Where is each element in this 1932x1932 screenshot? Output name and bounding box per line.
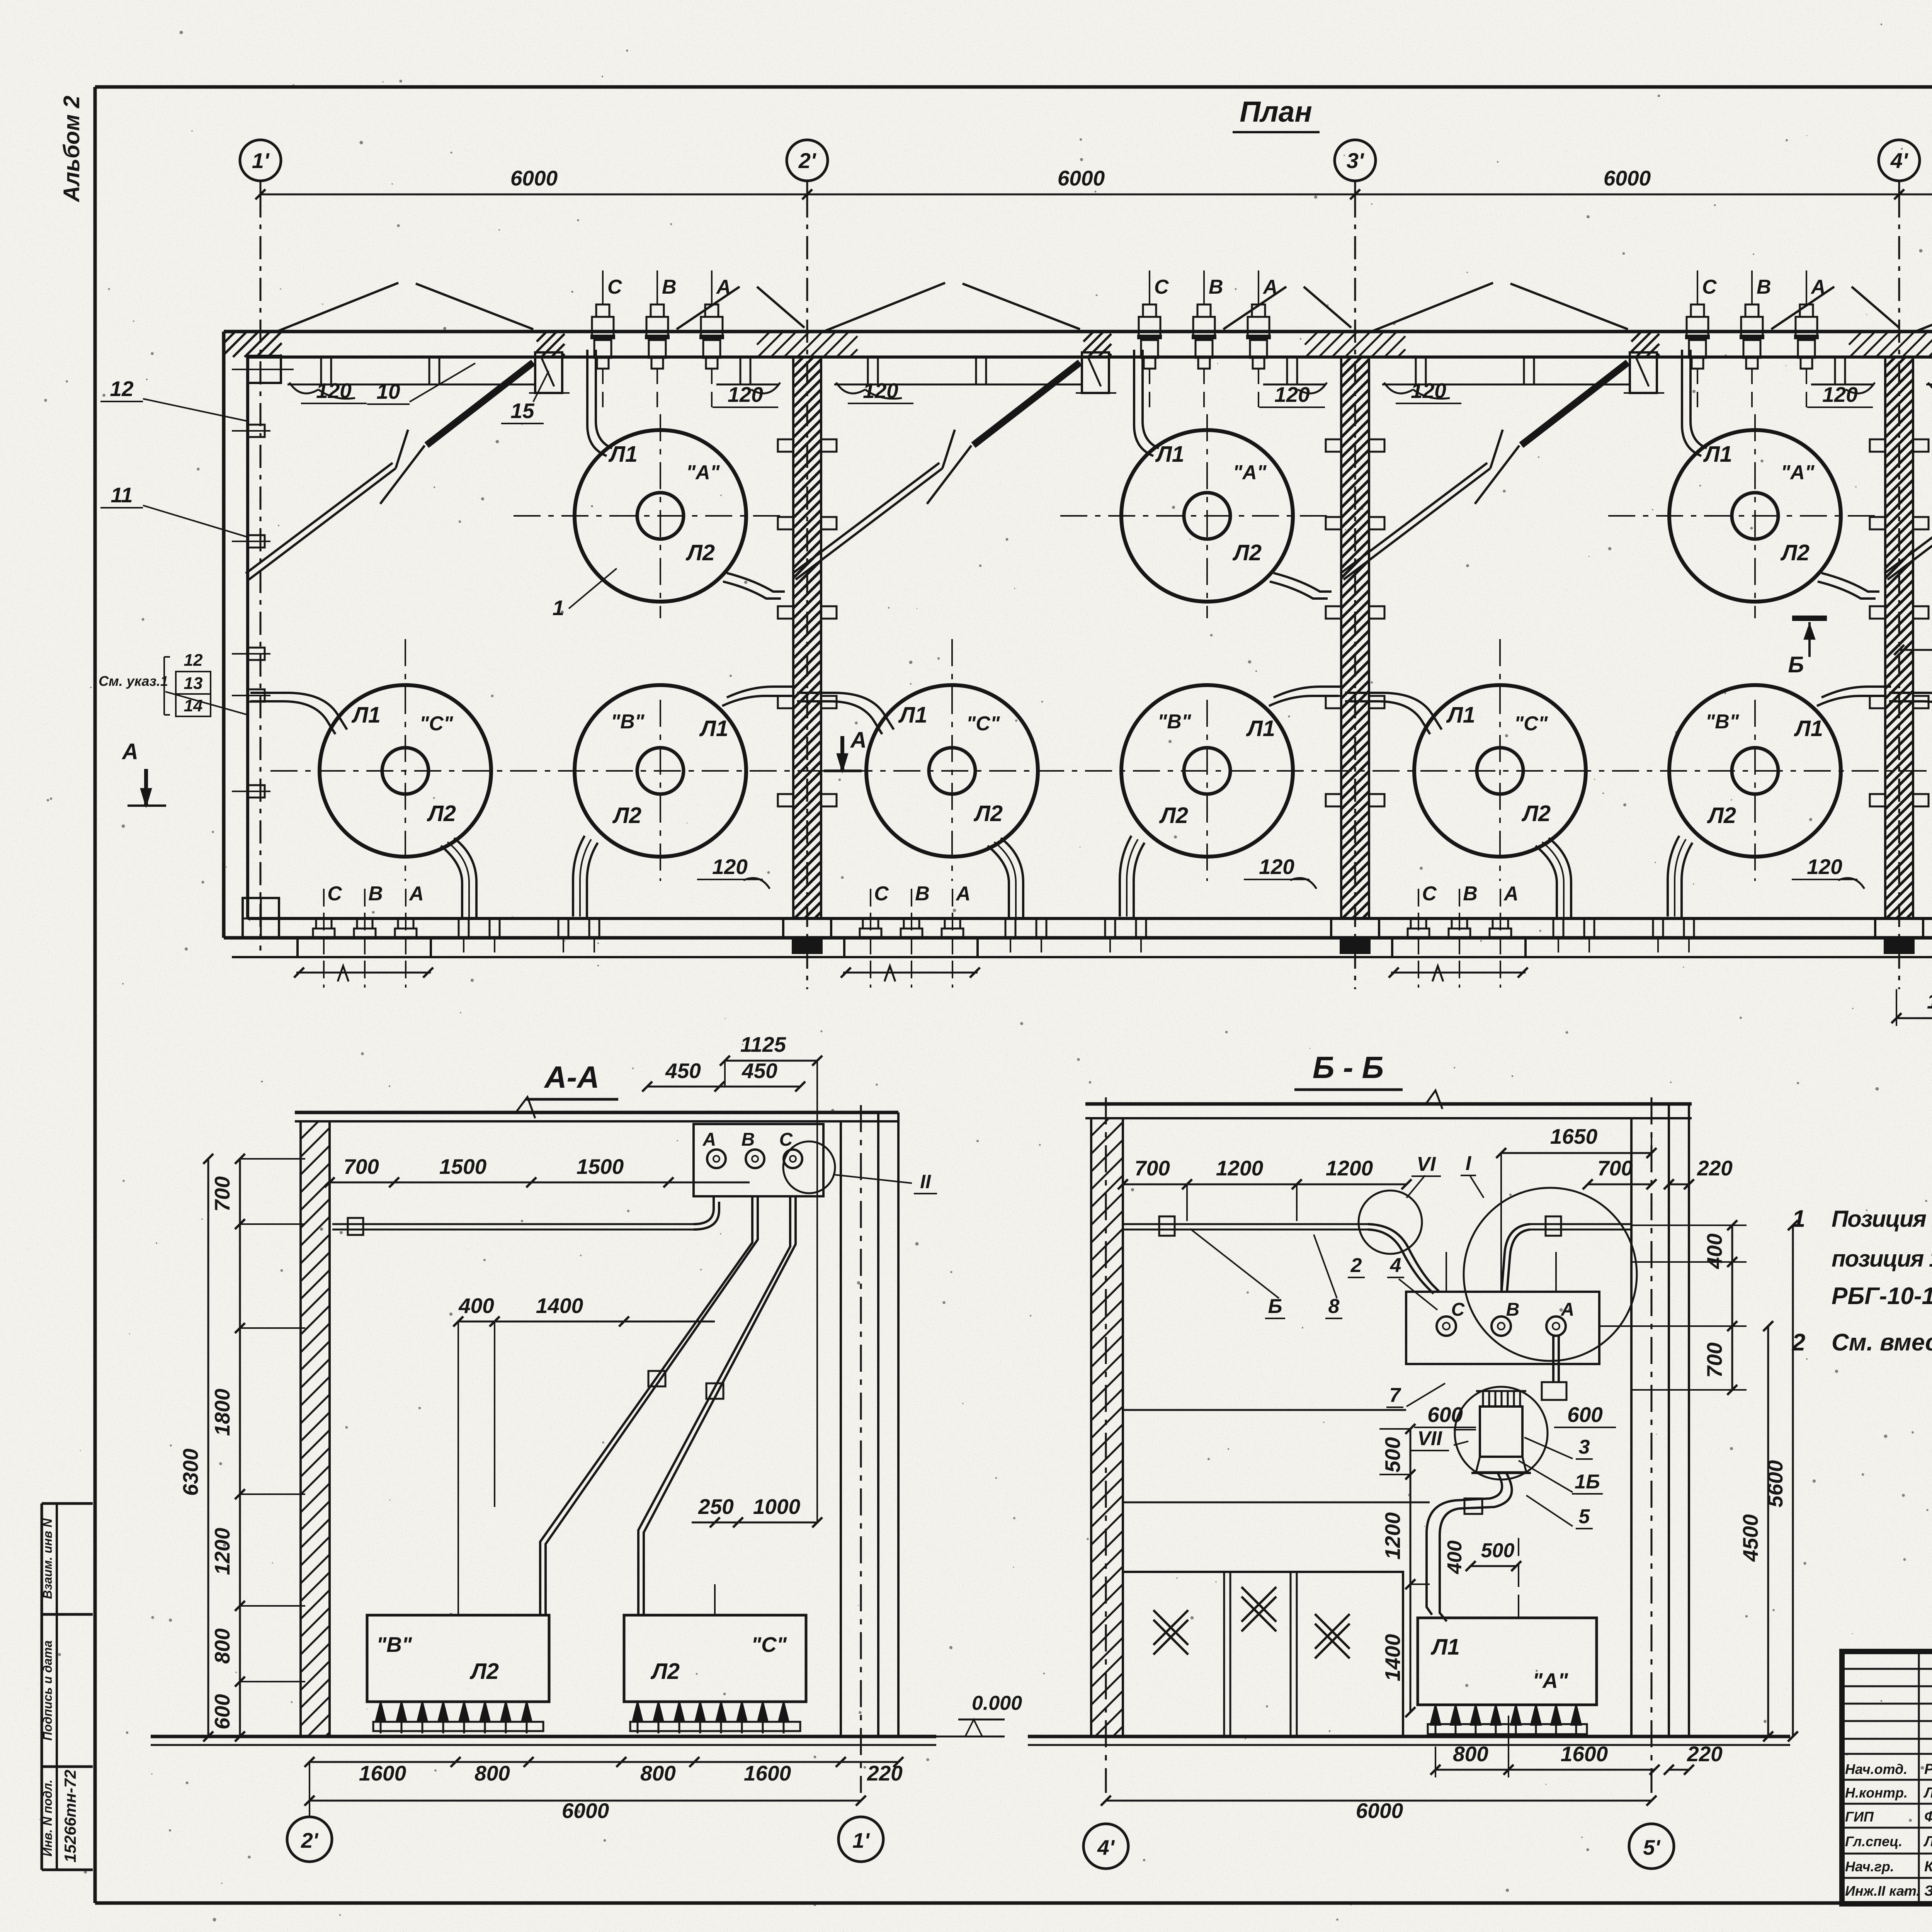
svg-text:"А": "А" bbox=[1781, 461, 1815, 484]
svg-text:4: 4 bbox=[1390, 1254, 1401, 1277]
svg-text:Л1: Л1 bbox=[898, 702, 927, 728]
left wall rib bbox=[248, 648, 265, 660]
svg-text:Л1: Л1 bbox=[1703, 442, 1732, 467]
section mark Б middle bbox=[1792, 616, 1827, 621]
svg-text:700: 700 bbox=[210, 1176, 234, 1212]
svg-text:700: 700 bbox=[344, 1155, 379, 1179]
svg-text:Л2: Л2 bbox=[650, 1659, 680, 1684]
svg-text:C: C bbox=[1702, 276, 1717, 298]
bay3 bottom pad bbox=[1392, 938, 1526, 957]
A-A dim 6000 bottom bbox=[310, 1800, 861, 1802]
svg-text:С: С bbox=[779, 1129, 793, 1150]
svg-text:4': 4' bbox=[1890, 148, 1908, 173]
left wall rib bbox=[248, 535, 265, 548]
bay2 label 120 bottom bbox=[1290, 878, 1316, 889]
svg-text:Л2: Л2 bbox=[469, 1659, 499, 1684]
column rib bbox=[1870, 439, 1885, 452]
bay1 bottom supports bbox=[459, 918, 469, 938]
svg-text:"С": "С" bbox=[1514, 713, 1548, 735]
svg-text:C: C bbox=[327, 883, 342, 905]
svg-text:1800: 1800 bbox=[210, 1388, 234, 1436]
column cap hatch bbox=[1849, 332, 1932, 357]
A-A inner dims 700 1500 1500 bbox=[330, 1182, 750, 1184]
Б-Б dim 1650 top bbox=[1501, 1152, 1651, 1154]
Б-Б transformer assembly bbox=[1480, 1406, 1522, 1457]
svg-text:8: 8 bbox=[1328, 1295, 1340, 1318]
svg-text:Б - Б: Б - Б bbox=[1313, 1050, 1384, 1085]
svg-text:"С": "С" bbox=[966, 713, 1000, 735]
svg-text:1125: 1125 bbox=[1927, 989, 1932, 1013]
A-A insulators С bbox=[633, 1702, 643, 1722]
svg-text:1200: 1200 bbox=[210, 1527, 234, 1575]
column shaft bbox=[1341, 357, 1369, 918]
svg-text:Карпов: Карпов bbox=[1924, 1859, 1932, 1875]
svg-text:В: В bbox=[742, 1129, 755, 1150]
Б-Б reactor box Л1 bbox=[1418, 1618, 1597, 1705]
svg-text:1Б: 1Б bbox=[1575, 1471, 1600, 1493]
bay2 band rib bbox=[1287, 357, 1297, 384]
bay1 short diagonal bbox=[380, 446, 425, 504]
svg-text:"А": "А" bbox=[1532, 1668, 1568, 1692]
svg-text:2: 2 bbox=[1792, 1329, 1805, 1356]
svg-text:2': 2' bbox=[301, 1828, 319, 1852]
bay3 cable B down bbox=[1668, 836, 1679, 917]
svg-text:400: 400 bbox=[458, 1294, 494, 1318]
svg-text:"В": "В" bbox=[1158, 711, 1192, 733]
bay2 in-band hatch bbox=[1083, 332, 1111, 357]
bay3 canopy right tent bbox=[1771, 287, 1834, 329]
svg-text:12: 12 bbox=[110, 377, 134, 401]
plan foundation strip bbox=[232, 956, 1932, 958]
column rib bbox=[778, 606, 793, 619]
svg-text:A: A bbox=[1810, 276, 1826, 298]
svg-text:A: A bbox=[408, 883, 424, 905]
Б-Б cabinet X mark bbox=[1315, 1614, 1350, 1649]
left wall rib bbox=[248, 785, 265, 798]
svg-text:120: 120 bbox=[863, 379, 898, 403]
svg-text:Лурье: Лурье bbox=[1923, 1833, 1932, 1850]
svg-text:10: 10 bbox=[376, 379, 400, 403]
bay3 reactor 'C' circle bbox=[1414, 685, 1586, 857]
column rib bbox=[1870, 517, 1885, 529]
svg-text:Л1: Л1 bbox=[608, 442, 638, 467]
svg-text:5: 5 bbox=[1579, 1505, 1590, 1528]
svg-text:1': 1' bbox=[852, 1828, 870, 1852]
svg-text:600: 600 bbox=[1427, 1403, 1463, 1427]
svg-text:"В": "В" bbox=[1706, 711, 1740, 733]
column rib bbox=[1870, 794, 1885, 806]
bay1 bushing bracket bbox=[535, 352, 562, 393]
bay3 cable A from bushings bbox=[1682, 350, 1701, 456]
svg-text:II: II bbox=[920, 1171, 931, 1192]
bay3 label 120 left bbox=[1384, 383, 1413, 393]
A-A total dim 6300 bbox=[207, 1159, 209, 1736]
bay2 label 120 right bbox=[1298, 383, 1327, 393]
bay2 cable C down bbox=[1001, 838, 1023, 918]
column cap hatch bbox=[757, 332, 857, 357]
svg-text:1600: 1600 bbox=[1561, 1742, 1608, 1766]
bay3 barrier diagonal bbox=[1344, 468, 1490, 580]
svg-text:500: 500 bbox=[1381, 1437, 1405, 1473]
bay2 canopy right tent bbox=[1223, 287, 1286, 329]
dim 1125 bay4 bottom bbox=[1896, 1017, 1932, 1019]
dim 1600 2800 inside bay4 bbox=[1899, 649, 1932, 651]
svg-text:450: 450 bbox=[665, 1059, 701, 1083]
svg-text:"А": "А" bbox=[686, 461, 720, 484]
column rib bbox=[778, 696, 793, 708]
svg-text:4': 4' bbox=[1097, 1835, 1115, 1859]
svg-text:250: 250 bbox=[698, 1495, 734, 1519]
svg-text:Л2: Л2 bbox=[1707, 803, 1736, 828]
bay1 top bushing B bbox=[656, 270, 658, 305]
svg-text:600: 600 bbox=[210, 1694, 234, 1730]
svg-text:A: A bbox=[1503, 883, 1519, 905]
svg-text:1200: 1200 bbox=[1216, 1156, 1264, 1180]
svg-text:А: А bbox=[702, 1129, 716, 1150]
A-A dim 450 450 bbox=[647, 1086, 800, 1088]
svg-text:Л2: Л2 bbox=[612, 803, 641, 828]
A-A insulators В bbox=[376, 1702, 386, 1722]
svg-text:12: 12 bbox=[184, 651, 203, 670]
svg-text:500: 500 bbox=[1481, 1539, 1515, 1562]
A-A callout II bbox=[783, 1141, 835, 1193]
svg-text:С: С bbox=[1451, 1299, 1465, 1320]
bay3 cable B to column bbox=[1821, 687, 1891, 697]
bay3 canopy left tent bbox=[1371, 283, 1493, 332]
svg-text:В: В bbox=[1506, 1299, 1520, 1320]
bay1 reactor 'A' circle bbox=[575, 430, 746, 602]
Б-Б right dim 5600 bbox=[1792, 1225, 1794, 1736]
sheet frame bbox=[95, 85, 1932, 89]
svg-text:2: 2 bbox=[1350, 1254, 1362, 1277]
svg-text:1400: 1400 bbox=[536, 1294, 583, 1318]
left wall corner hatch bbox=[224, 332, 282, 357]
A-A right wall bbox=[840, 1121, 842, 1736]
svg-text:1500: 1500 bbox=[577, 1155, 624, 1179]
column rib bbox=[1326, 517, 1341, 529]
bay1 bottom pad bbox=[298, 938, 431, 957]
svg-text:Л1: Л1 bbox=[1446, 702, 1475, 728]
bay2 bottom pad bbox=[844, 938, 978, 957]
svg-text:120: 120 bbox=[1822, 383, 1858, 406]
svg-text:План: План bbox=[1240, 95, 1312, 128]
bay2 blade diagonal bbox=[973, 362, 1080, 445]
svg-text:6000: 6000 bbox=[562, 1799, 609, 1823]
svg-text:13: 13 bbox=[184, 674, 203, 693]
bay2 cable B down bbox=[1120, 836, 1131, 917]
plan left wall bbox=[222, 332, 226, 938]
svg-text:Нач.отд.: Нач.отд. bbox=[1845, 1761, 1907, 1777]
Б-Б right dim 4500 bbox=[1767, 1326, 1769, 1736]
svg-text:"В": "В" bbox=[376, 1633, 412, 1656]
svg-text:400: 400 bbox=[1444, 1541, 1466, 1575]
bay4 shelf line bbox=[1926, 384, 1932, 386]
bay1 label 120 bottom bbox=[743, 878, 770, 889]
svg-text:Ломоносова: Ломоносова bbox=[1923, 1785, 1932, 1801]
A-A phase C drop bbox=[638, 1196, 790, 1615]
column rib bbox=[1870, 696, 1885, 708]
column shaft bbox=[793, 357, 821, 918]
svg-text:600: 600 bbox=[1567, 1403, 1603, 1427]
svg-text:800: 800 bbox=[474, 1761, 510, 1785]
left stamp table bbox=[42, 1502, 93, 1505]
column footing bbox=[1331, 918, 1379, 938]
column rib bbox=[1326, 439, 1341, 452]
Б-Б busbar right bbox=[1530, 1223, 1631, 1225]
svg-text:6000: 6000 bbox=[1356, 1799, 1403, 1823]
svg-text:15266тн-72: 15266тн-72 bbox=[61, 1770, 79, 1862]
grid axis 1' bubble bbox=[240, 140, 281, 181]
svg-text:C: C bbox=[607, 276, 622, 298]
bay2 barrier diagonal bbox=[796, 468, 942, 580]
bay2 band rib bbox=[868, 357, 878, 384]
bay1 cable C down bbox=[454, 838, 476, 918]
svg-text:Альбом 2: Альбом 2 bbox=[59, 95, 84, 202]
A-A busbar bbox=[332, 1223, 694, 1225]
svg-text:Б: Б bbox=[1788, 652, 1804, 677]
svg-text:11: 11 bbox=[111, 483, 133, 507]
column rib bbox=[1326, 794, 1341, 806]
bay2 cable A to column bbox=[1274, 573, 1332, 592]
bay3 reactor 'A' circle bbox=[1669, 430, 1841, 602]
svg-text:120: 120 bbox=[1807, 855, 1842, 879]
svg-text:4500: 4500 bbox=[1738, 1514, 1762, 1562]
bay1 band rib bbox=[740, 357, 750, 384]
svg-text:7: 7 bbox=[1389, 1384, 1401, 1406]
bay3 top bushing C bbox=[1697, 270, 1698, 305]
svg-text:1400: 1400 bbox=[1381, 1634, 1405, 1681]
bay4 barrier diagonal bbox=[1888, 468, 1932, 580]
column rib bbox=[778, 517, 793, 529]
column rib bbox=[778, 794, 793, 806]
column rib bbox=[1326, 606, 1341, 619]
svg-text:220: 220 bbox=[1687, 1742, 1723, 1766]
svg-text:VI: VI bbox=[1417, 1153, 1436, 1175]
svg-text:B: B bbox=[915, 883, 930, 905]
bay3 cable A to column bbox=[1821, 573, 1879, 592]
bay3 band rib bbox=[1835, 357, 1845, 384]
svg-text:700: 700 bbox=[1134, 1156, 1170, 1180]
svg-text:Подпись и дата: Подпись и дата bbox=[41, 1640, 54, 1740]
svg-text:А: А bbox=[850, 728, 867, 753]
grid axis 4' bubble bbox=[1879, 140, 1920, 181]
bay1 canopy left tent bbox=[277, 283, 398, 332]
left wall rib bbox=[248, 689, 265, 702]
grid axis 2' bubble bbox=[787, 140, 828, 181]
bay1 cable B down bbox=[573, 836, 585, 917]
Б-Б callout VII bbox=[1455, 1387, 1548, 1480]
bay3 band rib bbox=[1524, 357, 1534, 384]
svg-text:5': 5' bbox=[1643, 1835, 1661, 1859]
A-A top slab bbox=[295, 1111, 898, 1114]
Б-Б left dim chain 500 1200 1400 bbox=[1410, 1429, 1412, 1712]
A-A coupler on B drop bbox=[648, 1371, 665, 1386]
A-A grid 1' centerline bbox=[860, 1105, 862, 1793]
Б-Б shelf lines bbox=[1123, 1409, 1406, 1411]
bay3 top bushing B bbox=[1751, 270, 1753, 305]
bay4 canopy left tent bbox=[1915, 283, 1932, 332]
svg-text:120: 120 bbox=[1411, 379, 1446, 403]
Б-Б cabinet X mark bbox=[1242, 1587, 1276, 1622]
left wall rib bbox=[248, 425, 265, 437]
svg-text:Л2: Л2 bbox=[973, 801, 1003, 826]
svg-text:6000: 6000 bbox=[510, 166, 558, 190]
bay1 label 120 right bbox=[751, 383, 780, 393]
Б-Б busbar bbox=[1123, 1223, 1368, 1225]
svg-text:Зайцева: Зайцева bbox=[1924, 1883, 1932, 1899]
column footing bbox=[1875, 918, 1923, 938]
svg-text:Л1: Л1 bbox=[1155, 442, 1184, 467]
svg-text:1: 1 bbox=[553, 596, 565, 620]
svg-text:2': 2' bbox=[798, 148, 816, 173]
column rib bbox=[778, 439, 793, 452]
Б-Б dims 400 500 bbox=[1471, 1565, 1516, 1567]
svg-text:6300: 6300 bbox=[179, 1448, 202, 1496]
svg-text:A: A bbox=[1262, 276, 1278, 298]
svg-text:Л2: Л2 bbox=[1159, 803, 1188, 828]
bay3 label 120 right bbox=[1846, 383, 1875, 393]
svg-text:Б: Б bbox=[1268, 1295, 1282, 1318]
Б-Б right dim 400 700 bbox=[1731, 1225, 1733, 1390]
bay2 top bushing A bbox=[1258, 270, 1259, 305]
svg-text:B: B bbox=[1209, 276, 1223, 298]
bay2 cable wall to C bbox=[797, 693, 894, 730]
svg-text:120: 120 bbox=[728, 383, 763, 406]
Б-Б grid bubbles bbox=[1083, 1824, 1128, 1869]
bay3 shelf line bbox=[1382, 384, 1630, 386]
bay2 reactor 'C' circle bbox=[866, 685, 1038, 857]
bay2 bottom supports bbox=[1005, 918, 1015, 938]
svg-text:1500: 1500 bbox=[439, 1155, 487, 1179]
bay3 reactor 'B' circle bbox=[1669, 685, 1841, 857]
column footing bbox=[783, 918, 831, 938]
bay2 top bushing C bbox=[1149, 270, 1150, 305]
bay2 top bushing B bbox=[1203, 270, 1205, 305]
svg-text:120: 120 bbox=[1274, 383, 1310, 406]
bay1 top bushing C bbox=[602, 270, 604, 305]
bay2 cable A from bushings bbox=[1134, 350, 1153, 456]
bay1 cable A to column bbox=[727, 573, 785, 592]
Б-Б cable to reactor bbox=[1440, 1473, 1512, 1621]
plan bottom band bbox=[224, 936, 1932, 940]
Б-Б dims 700 1200 1200 bbox=[1123, 1184, 1406, 1185]
svg-text:Инж.II кат.: Инж.II кат. bbox=[1845, 1883, 1920, 1899]
svg-text:Инв. N подл.: Инв. N подл. bbox=[41, 1779, 54, 1856]
title block left rows bbox=[1842, 1668, 1932, 1670]
svg-text:Взаим. инв N: Взаим. инв N bbox=[41, 1518, 54, 1599]
column cap hatch bbox=[1305, 332, 1405, 357]
bay3 top bushing A bbox=[1806, 270, 1807, 305]
bay1 in-band hatch bbox=[537, 332, 565, 357]
Б-Б right wall bbox=[1630, 1118, 1633, 1736]
A-A reactor box С bbox=[624, 1615, 806, 1702]
svg-text:700: 700 bbox=[1597, 1156, 1633, 1180]
A-A dim 1125 top bbox=[725, 1060, 817, 1062]
bottom reactor row centerline bbox=[270, 770, 1932, 772]
A-A base plates В bbox=[373, 1722, 543, 1731]
bay1 cable wall to C bbox=[250, 693, 347, 730]
svg-text:Л1: Л1 bbox=[1430, 1634, 1460, 1660]
bay1 blade diagonal bbox=[427, 362, 533, 445]
svg-text:Нач.гр.: Нач.гр. bbox=[1845, 1859, 1894, 1874]
svg-text:C: C bbox=[1422, 883, 1437, 905]
svg-text:См. вместе с листами ЭП1- 5, 6: См. вместе с листами ЭП1- 5, 6 . bbox=[1832, 1329, 1932, 1356]
A-A phase B drop bbox=[540, 1196, 752, 1615]
bay4 cable wall to C bbox=[1889, 693, 1932, 730]
svg-text:220: 220 bbox=[1697, 1156, 1733, 1180]
Б-Б insulators bbox=[1430, 1705, 1440, 1725]
bay2 canopy left tent bbox=[823, 283, 945, 332]
bay2 shelf line bbox=[834, 384, 1082, 386]
title block left columns bbox=[1918, 1651, 1920, 1904]
svg-text:1: 1 bbox=[1792, 1206, 1805, 1232]
svg-text:A: A bbox=[955, 883, 971, 905]
svg-text:1200: 1200 bbox=[1326, 1156, 1373, 1180]
svg-text:Л1: Л1 bbox=[1246, 716, 1275, 741]
svg-text:120: 120 bbox=[1259, 855, 1294, 879]
column rib bbox=[1326, 696, 1341, 708]
svg-text:ГИП: ГИП bbox=[1845, 1809, 1874, 1825]
left wall corner pilaster bbox=[248, 356, 281, 383]
svg-text:450: 450 bbox=[742, 1059, 777, 1083]
bay3 in-band hatch bbox=[1631, 332, 1659, 357]
A-A bushing box bbox=[694, 1124, 823, 1196]
svg-text:См. указ.1: См. указ.1 bbox=[99, 673, 168, 689]
left wall bottom corner block bbox=[243, 898, 279, 938]
bay2 cable B to column bbox=[1274, 687, 1343, 697]
svg-text:"А": "А" bbox=[1233, 461, 1267, 484]
svg-text:1200: 1200 bbox=[1381, 1512, 1405, 1560]
bay2 bushing bracket bbox=[1082, 352, 1109, 393]
svg-text:I: I bbox=[1466, 1152, 1472, 1175]
svg-text:Роменский: Роменский bbox=[1924, 1761, 1932, 1777]
svg-text:120: 120 bbox=[712, 855, 748, 879]
svg-text:Л2: Л2 bbox=[1780, 540, 1810, 565]
bay4 label 120 left bbox=[1928, 383, 1932, 393]
svg-text:800: 800 bbox=[1453, 1742, 1488, 1766]
svg-text:5600: 5600 bbox=[1763, 1460, 1787, 1507]
bay1 top bushing A bbox=[711, 270, 713, 305]
Б-Б coupler right bbox=[1546, 1216, 1561, 1236]
svg-text:Л1: Л1 bbox=[699, 716, 728, 741]
Б-Б callout VI bbox=[1359, 1190, 1422, 1254]
svg-text:0.000: 0.000 bbox=[972, 1692, 1022, 1714]
bay2 reactor 'A' circle bbox=[1121, 430, 1293, 602]
bay2 band rib bbox=[976, 357, 986, 384]
Б-Б cabinet X mark bbox=[1153, 1610, 1188, 1645]
svg-text:B: B bbox=[662, 276, 677, 298]
Б-Б top slab bbox=[1085, 1102, 1692, 1106]
column shaft bbox=[1885, 357, 1913, 918]
bay3 blade diagonal bbox=[1521, 362, 1628, 445]
Б-Б bottom dims 800 1600 220 bbox=[1435, 1769, 1655, 1771]
bay1 reactor 'C' circle bbox=[320, 685, 491, 857]
Б-Б bushing box bbox=[1406, 1292, 1599, 1364]
svg-text:"С": "С" bbox=[420, 713, 454, 735]
bay1 canopy right tent bbox=[677, 287, 740, 329]
bay1 band rib bbox=[429, 357, 439, 384]
bay3 cable C down bbox=[1549, 838, 1571, 918]
Б-Б coupler left bbox=[1159, 1216, 1175, 1236]
svg-text:B: B bbox=[368, 883, 383, 905]
bay1 band rib bbox=[321, 357, 331, 384]
svg-text:РБГ-10-1600-0,14.: РБГ-10-1600-0,14. bbox=[1832, 1283, 1932, 1310]
svg-text:Л1: Л1 bbox=[1794, 716, 1823, 741]
plan top band bbox=[224, 330, 1932, 333]
svg-text:120: 120 bbox=[316, 379, 352, 403]
grid axis 3' centerline bbox=[1354, 194, 1356, 989]
svg-text:Л1: Л1 bbox=[351, 702, 381, 728]
